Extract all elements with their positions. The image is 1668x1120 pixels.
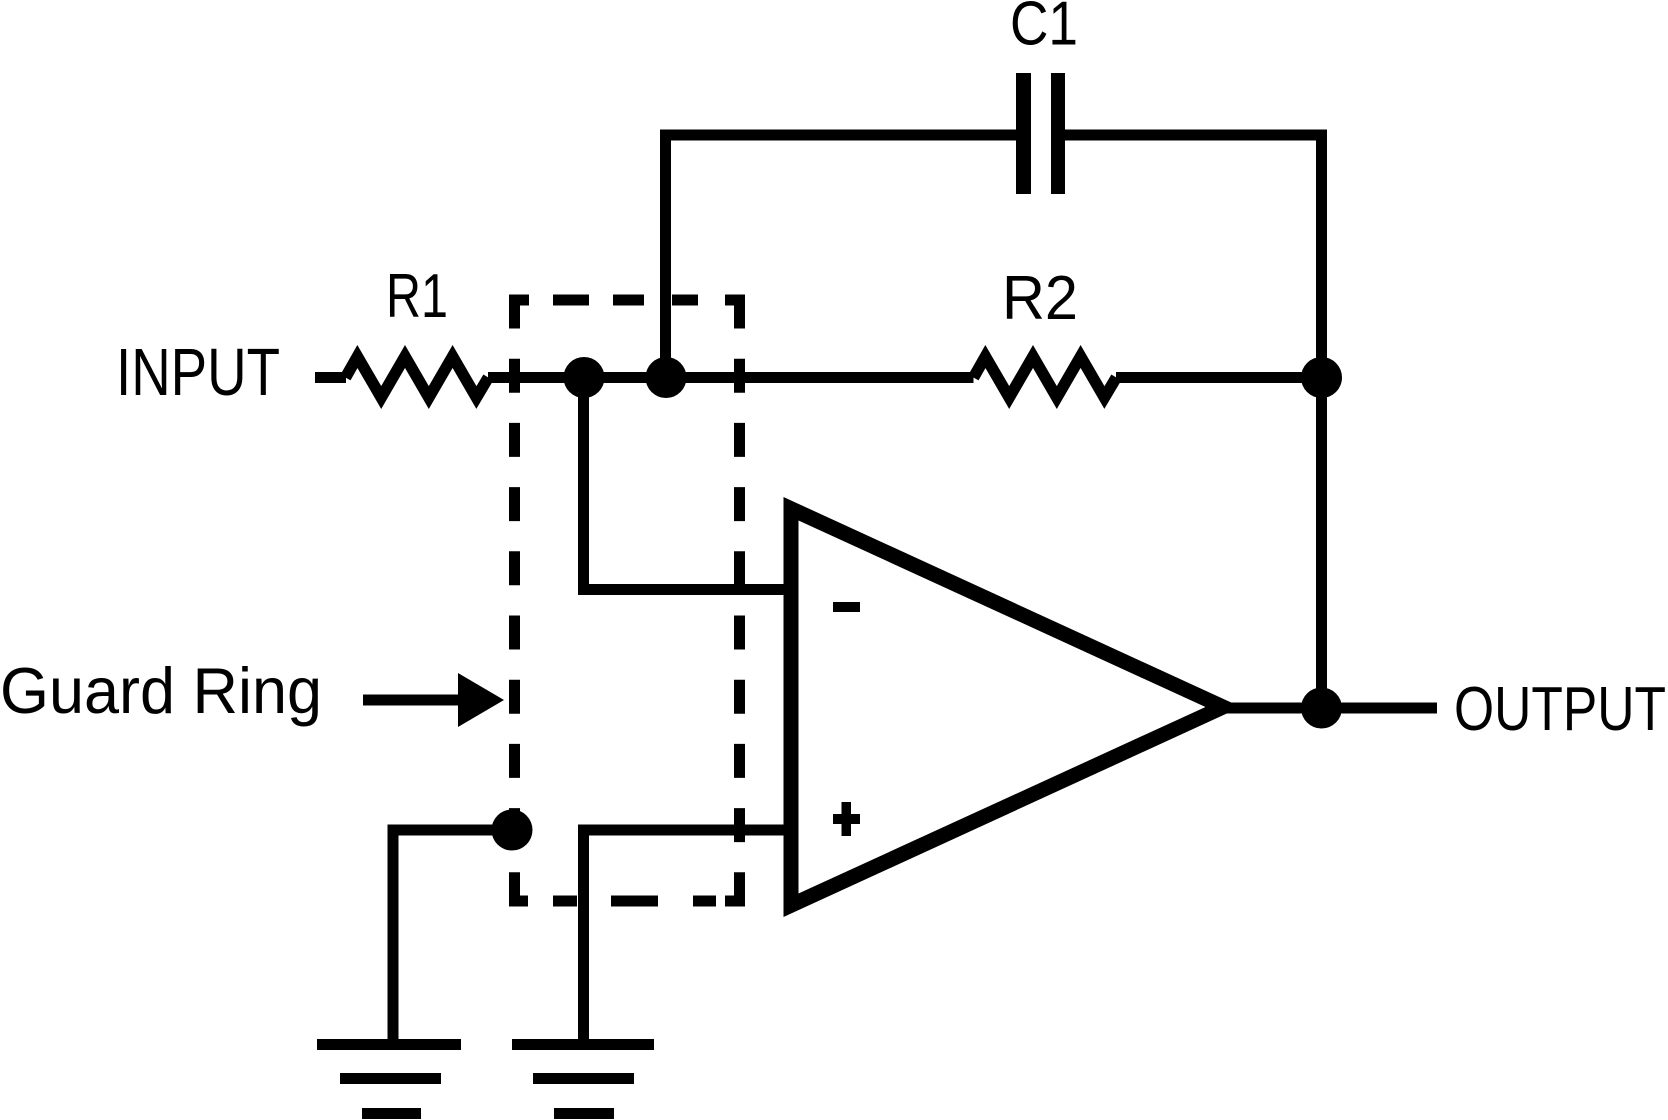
wire non-inverting input horizontal [578,825,790,836]
guard ring dashed box top [509,295,745,306]
svg-text:INPUT: INPUT [116,335,280,410]
wire non-inverting ground vertical [578,825,589,1045]
ground G1 [317,1039,461,1119]
wire R1 to R2 (summing node) [488,372,974,383]
capacitor C1 [1016,73,1065,194]
wire C1 top left [660,130,1016,141]
op-amp non-inverting pin label + [833,802,860,836]
wire input lead to R1 [315,372,346,383]
wire C1 top right [1065,130,1327,141]
ground G2 [512,1039,654,1119]
node guard ring ground dot [492,810,533,851]
wire guard ground vertical [388,830,399,1044]
wire inverting input horizontal [578,584,790,595]
svg-text:C1: C1 [1010,0,1078,59]
op-amp inverting pin label - [833,602,860,612]
op-amp U1 [784,497,1265,917]
guard ring dashed box left [509,295,520,907]
node junction dot R2/C1 feedback [1301,357,1342,398]
wire feedback right vertical [1316,130,1327,709]
guard ring dashed box bottom [509,896,745,907]
node output junction dot [1301,688,1342,729]
wire inverting input vertical [578,378,589,596]
wire R2 to feedback node [1116,372,1322,383]
guard ring dashed box right [734,295,745,907]
svg-text:Guard Ring: Guard Ring [0,654,322,727]
node junction dot on inverting input [564,357,605,398]
resistor R2 [974,357,1117,398]
wire guard ring to ground horizontal [388,825,513,836]
wire C1 branch riser [660,130,671,378]
svg-text:R2: R2 [1002,264,1078,333]
node junction dot at C1 branch [646,357,687,398]
svg-text:OUTPUT: OUTPUT [1454,675,1666,744]
guard ring pointer arrow [363,673,504,727]
resistor R1 [346,357,489,398]
wire op-amp output [1205,703,1437,714]
svg-text:R1: R1 [386,262,448,331]
